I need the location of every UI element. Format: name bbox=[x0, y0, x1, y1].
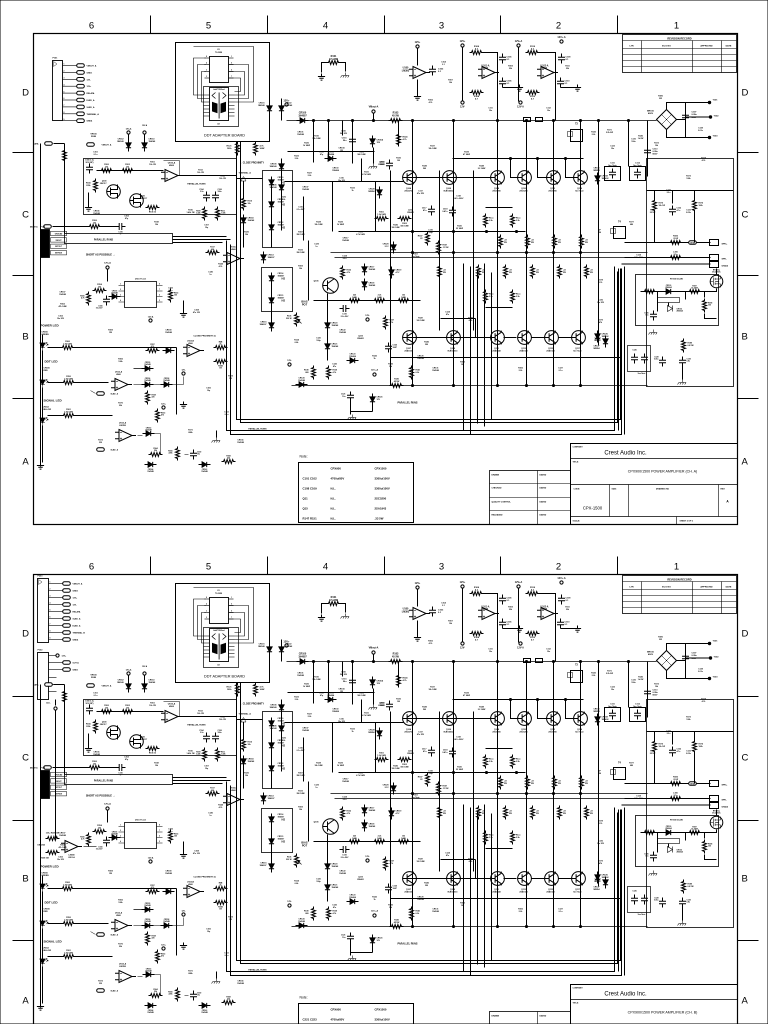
svg-text:100: 100 bbox=[397, 160, 400, 162]
wire 12v rail down bbox=[55, 711, 57, 839]
wire relay feed 2 bbox=[625, 257, 711, 259]
svg-text:SETOUT: SETOUT bbox=[55, 246, 63, 248]
svg-text:56u 50V: 56u 50V bbox=[340, 133, 348, 135]
svg-text:3: 3 bbox=[206, 70, 207, 72]
svg-text:200 W: 200 W bbox=[286, 318, 292, 320]
resistor R135 bbox=[373, 299, 387, 303]
svg-text:R105 1k: R105 1k bbox=[149, 212, 157, 214]
wire protect v3 bbox=[694, 191, 696, 199]
svg-text:1N4148: 1N4148 bbox=[237, 441, 244, 444]
ground left bus bbox=[37, 463, 44, 470]
svg-text:LTR: LTR bbox=[629, 46, 634, 48]
wire base drop 3 bbox=[566, 159, 574, 178]
junction bbox=[525, 384, 527, 386]
wire base bar top bbox=[403, 177, 491, 179]
input oval VMOUT bbox=[87, 143, 95, 147]
wire vas link v bbox=[308, 241, 310, 301]
capacitor C110 bbox=[557, 78, 564, 88]
svg-text:1: 1 bbox=[674, 21, 679, 32]
svg-text:1N5404: 1N5404 bbox=[327, 153, 335, 156]
terminal 12V+ bbox=[285, 103, 288, 106]
transistor Q105 bbox=[323, 278, 339, 294]
jfet Q100 bbox=[107, 185, 121, 199]
svg-text:RELAYA: RELAYA bbox=[73, 611, 81, 614]
u1 pins left bbox=[205, 598, 210, 600]
svg-text:12V+: 12V+ bbox=[460, 40, 466, 43]
svg-text:SPK+: SPK+ bbox=[722, 244, 728, 246]
ground input bbox=[85, 205, 92, 212]
svg-text:560 1/4W: 560 1/4W bbox=[357, 153, 365, 156]
input oval DELAY bbox=[44, 225, 52, 229]
p151 pin GND4 bbox=[63, 120, 77, 122]
diode CR102b bbox=[279, 103, 284, 115]
svg-text:1N4148: 1N4148 bbox=[111, 292, 117, 295]
svg-text:DDT LED: DDT LED bbox=[45, 360, 59, 364]
capacitor C120 bbox=[385, 343, 392, 353]
input box bbox=[84, 159, 237, 215]
svg-text:100 1/4W: 100 1/4W bbox=[391, 226, 399, 229]
svg-text:VMOUT_A: VMOUT_A bbox=[73, 583, 83, 586]
resistor emitter top bbox=[553, 235, 557, 249]
svg-text:GND1: GND1 bbox=[73, 670, 79, 672]
ddt loop l3 bbox=[202, 72, 206, 103]
resistor R104 bbox=[94, 179, 98, 193]
wire protect v5 bbox=[694, 213, 696, 243]
title block outline bbox=[571, 444, 738, 525]
svg-text:5W: 5W bbox=[482, 272, 485, 274]
capacitor C121 bbox=[347, 392, 354, 402]
svg-text:VMOUT_A: VMOUT_A bbox=[87, 65, 97, 68]
resistor R165 bbox=[214, 360, 228, 364]
svg-text:12V+: 12V+ bbox=[161, 404, 167, 406]
svg-text:1N4148: 1N4148 bbox=[369, 268, 376, 271]
wire mosfet drain bbox=[716, 269, 718, 275]
wire row link bottom bbox=[486, 307, 513, 309]
svg-text:0.05u: 0.05u bbox=[692, 114, 698, 116]
svg-text:16k 1W: 16k 1W bbox=[197, 172, 204, 174]
svg-text:U151 TC-U1: U151 TC-U1 bbox=[135, 279, 147, 281]
svg-text:1N4007: 1N4007 bbox=[278, 296, 285, 299]
wire protect v1 bbox=[654, 191, 656, 199]
svg-text:2SC5200: 2SC5200 bbox=[519, 190, 528, 192]
svg-text:1N4148: 1N4148 bbox=[59, 293, 66, 296]
svg-text:1N5404: 1N5404 bbox=[332, 169, 340, 172]
diode CR106 bbox=[279, 182, 284, 194]
wire column bbox=[439, 171, 441, 331]
wire relay coil drop bbox=[668, 303, 670, 307]
svg-text:4560: 4560 bbox=[542, 67, 548, 70]
zone tick top bbox=[384, 557, 386, 575]
wire speaker nest 2 bbox=[470, 267, 472, 435]
wire crx col bbox=[281, 159, 283, 231]
resistor emitter mid bbox=[585, 265, 589, 279]
svg-text:DATED: DATED bbox=[540, 501, 547, 504]
transistor Q110 bbox=[518, 171, 532, 185]
svg-text:B: B bbox=[742, 332, 748, 343]
svg-text:ELED_A: ELED_A bbox=[87, 99, 95, 102]
svg-text:REV:: REV: bbox=[721, 489, 726, 491]
svg-text:6: 6 bbox=[159, 295, 160, 297]
bridge rectifier BR100 bbox=[657, 110, 677, 130]
wire bus left a bbox=[173, 236, 227, 238]
connector P102 bbox=[38, 653, 49, 700]
svg-text:RELEASED: RELEASED bbox=[492, 514, 503, 517]
wire base drop 1 bbox=[511, 159, 518, 178]
diode CR130 bbox=[663, 289, 675, 294]
zone tick left bbox=[13, 152, 34, 154]
svg-text:1/4W: 1/4W bbox=[401, 296, 406, 299]
svg-text:220: 220 bbox=[152, 397, 155, 399]
svg-text:1N4148: 1N4148 bbox=[286, 104, 293, 107]
svg-text:9: 9 bbox=[50, 638, 51, 640]
fuse F101 bbox=[524, 118, 531, 122]
ground U101 bbox=[516, 85, 523, 92]
svg-text:SLED_A: SLED_A bbox=[87, 106, 95, 109]
transistor Q109 bbox=[447, 331, 461, 345]
transistor Q108 bbox=[491, 171, 505, 185]
junction bbox=[579, 251, 581, 253]
svg-text:6: 6 bbox=[64, 98, 65, 100]
svg-text:DRAWN: DRAWN bbox=[492, 474, 500, 477]
svg-text:2SC5200: 2SC5200 bbox=[375, 497, 387, 501]
svg-text:47k 1/4W: 47k 1/4W bbox=[58, 305, 66, 308]
wire row link top bbox=[486, 207, 513, 209]
resistor R117 bbox=[206, 251, 220, 255]
p102 pin GND1 bbox=[49, 669, 63, 671]
wire led link bbox=[176, 348, 178, 415]
svg-text:Q15: Q15 bbox=[303, 507, 309, 511]
transistor Q112 bbox=[547, 171, 561, 185]
fuse F102 bbox=[536, 118, 543, 122]
svg-text:OUT A: OUT A bbox=[73, 662, 80, 665]
p151 pin 12V- bbox=[63, 78, 77, 80]
resistor emitter mid bbox=[438, 265, 442, 279]
junction bbox=[452, 384, 454, 386]
wire sig fb bbox=[138, 434, 200, 465]
wire column bbox=[553, 121, 555, 386]
resistor R141 bbox=[410, 366, 414, 380]
resistor R188 bbox=[703, 299, 707, 313]
resistor R147 bbox=[426, 232, 430, 246]
svg-text:CPX900: CPX900 bbox=[331, 467, 342, 471]
wire in1 bbox=[54, 143, 65, 145]
resistor R108 bbox=[470, 91, 484, 95]
wire u101 gnd link bbox=[503, 85, 520, 88]
p151 pin SLED_A bbox=[63, 106, 77, 108]
svg-text:5W: 5W bbox=[558, 242, 561, 244]
p102 stub bbox=[49, 684, 57, 686]
svg-text:1N4148: 1N4148 bbox=[93, 212, 100, 215]
wire left signal bus bbox=[40, 144, 42, 467]
ddt board box bbox=[176, 43, 270, 142]
svg-text:U2: U2 bbox=[217, 665, 219, 667]
junction bbox=[552, 251, 554, 253]
ddt board box bbox=[176, 584, 270, 683]
resistor R161 bbox=[62, 414, 76, 418]
connector P150 bbox=[41, 230, 50, 258]
svg-text:330: 330 bbox=[99, 442, 102, 444]
svg-text:1N4148: 1N4148 bbox=[258, 104, 265, 107]
svg-text:COMPANY:: COMPANY: bbox=[573, 987, 584, 990]
diode CR117 bbox=[362, 264, 367, 276]
svg-text:1k: 1k bbox=[220, 344, 222, 346]
diode CR133 bbox=[603, 336, 608, 348]
svg-text:2.2u 50V: 2.2u 50V bbox=[341, 316, 349, 318]
diode CR121 bbox=[325, 341, 330, 353]
svg-text:1N4148: 1N4148 bbox=[269, 165, 277, 168]
transistor Q107 bbox=[403, 331, 417, 345]
capacitor C127 bbox=[641, 354, 648, 364]
resistor R189 bbox=[682, 339, 686, 353]
wire drv v4 bbox=[375, 182, 377, 232]
svg-text:4560: 4560 bbox=[169, 164, 175, 167]
diode CR116 bbox=[269, 320, 274, 332]
capacitor C126 bbox=[631, 354, 638, 364]
wire opamp out bbox=[180, 175, 237, 177]
svg-text:1N4148: 1N4148 bbox=[144, 363, 150, 366]
svg-text:220k: 220k bbox=[169, 453, 173, 455]
svg-text:1N5402: 1N5402 bbox=[602, 177, 610, 180]
svg-text:2: 2 bbox=[206, 76, 207, 78]
title company row bbox=[571, 458, 738, 460]
wire protect v4 bbox=[654, 213, 656, 243]
p102 pin 12V+ bbox=[49, 655, 56, 657]
svg-text:1N4148: 1N4148 bbox=[163, 379, 169, 382]
svg-text:1: 1 bbox=[50, 582, 51, 584]
zone tick left bbox=[13, 398, 34, 400]
resistor emitter mid bbox=[504, 265, 508, 279]
wire column bbox=[453, 121, 455, 386]
svg-text:4700u/80V: 4700u/80V bbox=[331, 477, 345, 481]
wire bus vertical c bbox=[618, 269, 620, 431]
wire bus left b bbox=[173, 239, 231, 241]
svg-text:100u 50V: 100u 50V bbox=[634, 257, 643, 259]
svg-text:10u 50V: 10u 50V bbox=[597, 302, 605, 304]
ddt loop r3 bbox=[229, 78, 241, 92]
junction bbox=[411, 251, 413, 253]
ddt loop r2 bbox=[229, 613, 245, 637]
svg-text:D: D bbox=[742, 629, 749, 640]
resistor R163 bbox=[156, 409, 160, 423]
svg-text:LTR: LTR bbox=[629, 587, 634, 589]
svg-text:C: C bbox=[22, 210, 29, 221]
svg-text:A: A bbox=[742, 457, 749, 468]
signature row line bbox=[490, 497, 571, 499]
led CR160 bbox=[40, 341, 48, 351]
wire base drop b1 bbox=[504, 337, 517, 339]
resistor R167 bbox=[222, 460, 236, 464]
ic U151 bbox=[125, 282, 157, 308]
p151 pin RELAYA bbox=[63, 92, 77, 94]
svg-text:4560: 4560 bbox=[483, 67, 489, 70]
svg-text:B: B bbox=[22, 332, 28, 343]
connector P203 bbox=[38, 579, 49, 643]
wire driver h2 bbox=[285, 181, 404, 183]
svg-text:VMOUT_A: VMOUT_A bbox=[102, 144, 112, 147]
capacitor C159 bbox=[190, 450, 197, 460]
svg-text:500B: 500B bbox=[91, 136, 96, 138]
svg-text:1N4007: 1N4007 bbox=[259, 323, 267, 326]
svg-text:2N5064: 2N5064 bbox=[665, 286, 671, 289]
svg-text:ECO NO: ECO NO bbox=[662, 587, 671, 589]
svg-text:2W: 2W bbox=[659, 98, 662, 100]
signature col bbox=[537, 1012, 539, 1024]
ground sig bbox=[212, 438, 221, 443]
svg-text:2N5064: 2N5064 bbox=[677, 310, 683, 313]
svg-text:0.47u: 0.47u bbox=[442, 210, 448, 213]
u1 pins left bbox=[205, 57, 210, 59]
junction bbox=[351, 119, 353, 121]
svg-text:SPK-: SPK- bbox=[722, 259, 727, 261]
svg-text:2SA1943: 2SA1943 bbox=[546, 349, 555, 352]
svg-text:CLOSE PROXIMITY-A: CLOSE PROXIMITY-A bbox=[193, 335, 216, 338]
connector P151 bbox=[53, 61, 63, 121]
svg-text:See Note: See Note bbox=[633, 164, 642, 167]
svg-text:2SC5200: 2SC5200 bbox=[492, 190, 501, 192]
ic U1 bbox=[210, 57, 229, 83]
capacitor C129 bbox=[679, 357, 686, 367]
svg-text:2N5401: 2N5401 bbox=[407, 211, 414, 214]
resistor R112 bbox=[526, 91, 540, 95]
wire base drop b2 bbox=[532, 337, 545, 339]
svg-text:4.7k: 4.7k bbox=[151, 345, 155, 348]
svg-text:DATA: DATA bbox=[33, 143, 39, 146]
svg-text:GND1: GND1 bbox=[87, 72, 93, 74]
thermal flag bbox=[241, 177, 246, 182]
svg-text:DATE: DATE bbox=[726, 586, 732, 589]
svg-text:12V-: 12V- bbox=[73, 605, 77, 607]
svg-text:GNDA: GNDA bbox=[722, 265, 729, 268]
svg-text:4700u/80V: 4700u/80V bbox=[331, 1018, 345, 1022]
mosfet Q121 bbox=[710, 275, 723, 288]
wire -rail bottom bbox=[292, 385, 648, 387]
terminal 12V+A U102 bbox=[517, 44, 520, 47]
op-amp U152-A bbox=[111, 379, 132, 391]
svg-text:3300u/100V: 3300u/100V bbox=[375, 487, 390, 491]
capacitor C115 bbox=[349, 136, 356, 146]
svg-text:47u 25V: 47u 25V bbox=[417, 192, 425, 195]
svg-text:MR854: MR854 bbox=[368, 190, 375, 193]
wire column bbox=[412, 121, 414, 386]
diode CR114 HS bbox=[269, 273, 274, 285]
svg-text:2SA1943: 2SA1943 bbox=[492, 349, 501, 352]
svg-text:50V (NP): 50V (NP) bbox=[86, 162, 94, 164]
svg-text:12V+-A: 12V+-A bbox=[371, 369, 379, 372]
svg-text:45 5W: 45 5W bbox=[392, 114, 400, 117]
wire mid rail lower bbox=[335, 257, 648, 259]
svg-text:U2: U2 bbox=[217, 124, 219, 126]
wire u102 gnd link bbox=[561, 85, 578, 88]
terminal 12V+A2 bbox=[560, 40, 563, 43]
svg-text:0.01u: 0.01u bbox=[698, 130, 704, 132]
svg-text:10u 50V: 10u 50V bbox=[338, 180, 346, 182]
wire mid rail upper bbox=[331, 252, 648, 254]
p151 pin 12V+ bbox=[63, 85, 77, 87]
svg-text:GND4: GND4 bbox=[87, 120, 93, 123]
svg-text:3: 3 bbox=[50, 596, 51, 598]
net box 4 bbox=[51, 251, 67, 255]
capacitor C113 bbox=[644, 147, 651, 157]
svg-text:N.L.: N.L. bbox=[331, 517, 337, 521]
svg-text:1N4148: 1N4148 bbox=[417, 357, 424, 360]
signature table bbox=[490, 471, 571, 525]
title scale row bbox=[571, 516, 738, 518]
svg-text:10k 1/4W: 10k 1/4W bbox=[314, 223, 322, 226]
transistor Q117 bbox=[572, 331, 586, 345]
junction base t3 bbox=[564, 157, 566, 159]
resistor R157 bbox=[146, 349, 160, 353]
svg-text:TO-220M: TO-220M bbox=[215, 593, 223, 595]
svg-text:DDT ADAPTER BOARD: DDT ADAPTER BOARD bbox=[204, 675, 245, 679]
svg-text:6.8u: 6.8u bbox=[687, 361, 691, 363]
revision table row bbox=[623, 595, 737, 597]
wire enclosure inner bbox=[241, 142, 618, 423]
svg-text:4.7k: 4.7k bbox=[81, 297, 85, 300]
wire base drop 2 bbox=[538, 159, 547, 178]
capacitor C117 bbox=[428, 206, 435, 216]
resistor R100 bbox=[100, 169, 114, 173]
svg-text:PARALLEL RUNS: PARALLEL RUNS bbox=[94, 239, 114, 242]
wire speaker nest 1 bbox=[463, 264, 465, 431]
resistor R158 bbox=[146, 391, 150, 405]
wire u101 vcc col bbox=[462, 47, 464, 102]
revision table bbox=[623, 35, 737, 73]
wire base rail top bbox=[453, 158, 584, 160]
resistor R110 bbox=[526, 51, 540, 55]
ic pin left bbox=[119, 301, 125, 303]
svg-text:1N4007: 1N4007 bbox=[278, 223, 285, 226]
zener CR119 bbox=[389, 267, 394, 279]
title company row bbox=[571, 999, 738, 1001]
svg-text:Crest Audio Inc.: Crest Audio Inc. bbox=[604, 992, 647, 998]
svg-text:P151: P151 bbox=[53, 58, 59, 60]
junction bbox=[552, 384, 554, 386]
p102 stub bbox=[49, 691, 57, 693]
wire vas h bbox=[314, 300, 421, 302]
svg-text:T103: T103 bbox=[713, 136, 719, 138]
wire column bbox=[390, 171, 392, 386]
svg-text:RY100 DC24V: RY100 DC24V bbox=[670, 278, 684, 281]
wire drv v2 bbox=[361, 159, 363, 182]
svg-text:500 1/4W: 500 1/4W bbox=[400, 224, 408, 227]
transistor Q106 bbox=[443, 171, 457, 185]
svg-text:CODE:: CODE: bbox=[574, 489, 581, 491]
svg-text:1N4148: 1N4148 bbox=[302, 188, 309, 191]
wire bus left c bbox=[173, 242, 223, 244]
svg-text:100 1/4W: 100 1/4W bbox=[416, 319, 424, 322]
p203 pin VMOUT_A bbox=[49, 583, 63, 585]
wire column bbox=[526, 121, 528, 386]
resistor R111 bbox=[216, 207, 220, 221]
svg-text:2N5401: 2N5401 bbox=[357, 337, 364, 340]
svg-text:1/4W: 1/4W bbox=[260, 147, 265, 150]
wire +rail top bbox=[287, 120, 657, 122]
svg-text:1N4148: 1N4148 bbox=[165, 331, 172, 334]
svg-text:2: 2 bbox=[556, 562, 561, 573]
svg-text:1M: 1M bbox=[105, 166, 108, 168]
svg-text:10k 1W: 10k 1W bbox=[149, 164, 156, 166]
svg-text:4.7k 1/4W: 4.7k 1/4W bbox=[356, 233, 365, 236]
svg-text:D: D bbox=[742, 88, 749, 99]
svg-text:A: A bbox=[22, 457, 29, 468]
svg-text:.1: .1 bbox=[120, 234, 122, 236]
svg-text:SLED_A: SLED_A bbox=[111, 393, 119, 396]
ic pin left bbox=[119, 285, 125, 287]
resistor emitter mid bbox=[531, 265, 535, 279]
zone tick right bbox=[738, 398, 759, 400]
diode CR156 bbox=[142, 382, 154, 387]
resistor R157c bbox=[437, 241, 441, 255]
